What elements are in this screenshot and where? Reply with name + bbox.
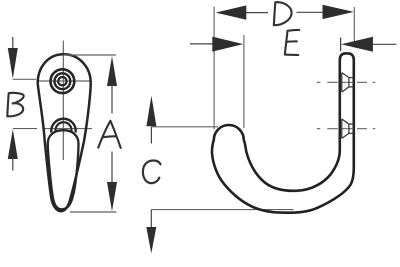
dimension D left arrow: [216, 5, 247, 19]
hole H1 outer ring: [51, 69, 75, 93]
dimension D line left tail: [246, 12, 268, 14]
bar hole 1 countersink symbol: [342, 73, 354, 92]
label B: [7, 93, 23, 116]
bar hole 2 centerline through bar: [341, 128, 354, 130]
dimension E left extension line: [243, 35, 245, 128]
hook shank front view (inner dome): [48, 130, 79, 209]
dimension B top arrow (down): [12, 37, 14, 49]
dimension E right tail: [373, 43, 397, 45]
dimension D line right tail: [297, 11, 324, 13]
dimension D left extension line: [213, 7, 215, 130]
bar hole 2 dashdot left: [317, 128, 338, 130]
hook outline (side view): [212, 53, 354, 212]
label C: [143, 160, 161, 183]
plate outline (front view teardrop): [38, 54, 91, 211]
plate centerline vertical: [62, 41, 64, 161]
dimension E left arrow (points right): [212, 37, 243, 52]
label D: [274, 2, 292, 25]
bar hole 1 centerline through bar: [341, 81, 354, 83]
dimension A arrow up: [107, 56, 117, 86]
dimension B bottom line: [13, 128, 37, 130]
dimension B bottom arrow (up): [8, 129, 18, 159]
dimension A top line: [64, 54, 117, 56]
bar hole 2 dashdot right: [357, 128, 375, 130]
dimension C bottom line: [151, 209, 293, 211]
dimension D right arrow: [323, 5, 354, 19]
dimension B top line: [13, 78, 36, 80]
bar hole 2 countersink symbol: [342, 119, 354, 138]
hole H2 middle arc: [56, 122, 72, 131]
dimension C top line: [151, 126, 218, 128]
dimension C top arrow (up, above line): [146, 96, 156, 127]
label E: [285, 30, 300, 55]
hole H2 outer arc: [51, 119, 75, 133]
hole H1 inner ring: [58, 77, 66, 85]
bar hole 1 dashdot right: [357, 81, 375, 83]
dimension D right extension line: [353, 7, 355, 48]
dimension A arrow down: [107, 182, 117, 211]
dimension A bottom line: [70, 211, 117, 213]
hole H1 centerline horizontal: [37, 80, 91, 82]
dimension C bottom arrow (down, below line): [150, 210, 152, 228]
hole H1 middle ring: [55, 73, 71, 89]
dimension A line lower segment: [111, 152, 113, 184]
hole H2 centerline horizontal: [43, 128, 92, 130]
dimension E right tick: [340, 38, 342, 52]
label A: [98, 121, 120, 148]
dimension E left tail: [190, 43, 213, 45]
dimension A line upper segment: [111, 85, 113, 114]
bar hole 1 dashdot left: [317, 81, 338, 83]
dimension E right arrow (points left): [341, 37, 373, 52]
